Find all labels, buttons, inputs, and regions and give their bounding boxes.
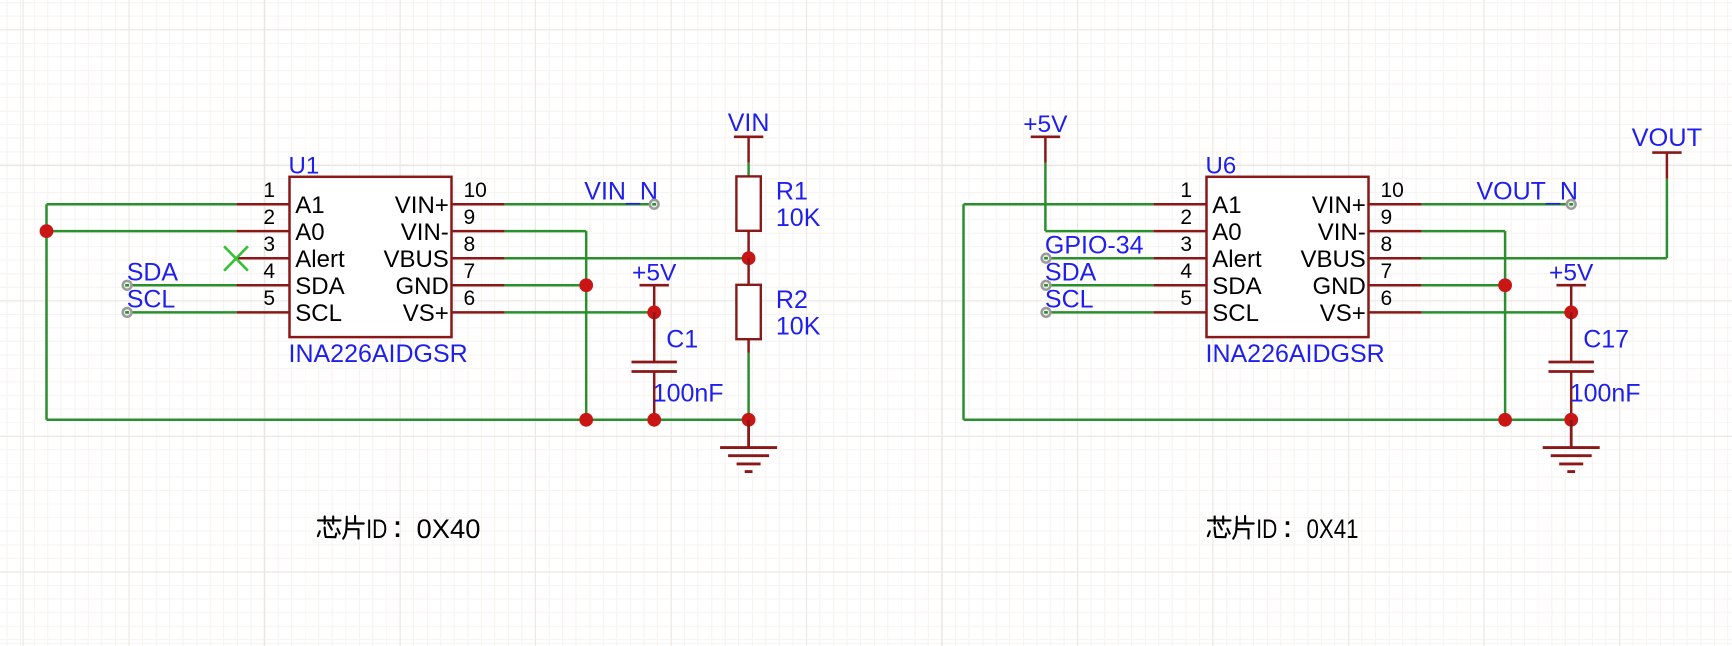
IC U6 pin 10 stub: [1369, 203, 1422, 206]
pin circle SCL (U6): [1042, 308, 1051, 317]
ground GND1 stem: [747, 420, 750, 448]
power flag +5V (C1) stem: [653, 285, 656, 311]
svg-text:5: 5: [263, 287, 275, 310]
svg-text:GND: GND: [1312, 273, 1365, 300]
wire pin6 VS+ to +5V node (U6): [1422, 311, 1572, 314]
svg-text:C17: C17: [1583, 325, 1629, 353]
svg-text:+5V: +5V: [632, 259, 677, 286]
power flag VOUT stem: [1666, 153, 1669, 179]
caption chip id 0X41 fullwidth colon: [1286, 521, 1289, 537]
svg-text:A0: A0: [1212, 219, 1241, 246]
wire pin2 A0 horizontal: [47, 230, 237, 233]
wire VOUT stem down to VBUS row: [1666, 179, 1669, 259]
svg-text:VS+: VS+: [1320, 300, 1366, 327]
wire pin9 VIN- vertical down: [585, 231, 588, 420]
power flag VIN stem: [747, 137, 750, 163]
svg-text:100nF: 100nF: [1570, 380, 1641, 408]
svg-text:VIN: VIN: [728, 109, 770, 137]
wire A0 row to pin2: [1045, 230, 1153, 233]
junction bottom/R2/ground: [742, 413, 756, 427]
svg-text:+5V: +5V: [1549, 259, 1594, 286]
svg-text:U6: U6: [1206, 153, 1237, 180]
IC U1 pin 10 stub: [452, 203, 505, 206]
svg-text:GPIO-34: GPIO-34: [1045, 232, 1144, 260]
svg-text:10: 10: [1381, 179, 1404, 202]
IC U6 pin 3 stub: [1153, 257, 1206, 260]
IC U6 pin 6 stub: [1369, 311, 1422, 314]
junction bottom/C1: [647, 413, 661, 427]
svg-text:+5V: +5V: [1023, 111, 1068, 138]
junction bottom/VIN- (U6): [1498, 413, 1512, 427]
svg-text:9: 9: [464, 206, 476, 229]
ground GND17 bar 1: [1543, 446, 1600, 449]
svg-text:GND: GND: [395, 273, 448, 300]
resistor R1 body: [736, 176, 760, 230]
svg-text:6: 6: [1381, 287, 1393, 310]
IC U1 pin 2 stub: [236, 230, 289, 233]
svg-text:VIN+: VIN+: [1312, 192, 1366, 219]
svg-text:VIN-: VIN-: [1318, 219, 1366, 246]
pin circle SDA (U6): [1042, 281, 1051, 290]
ground GND1 bar 1: [720, 446, 777, 449]
svg-text:3: 3: [263, 233, 275, 256]
IC U1 pin 1 stub: [236, 203, 289, 206]
svg-text:A0: A0: [295, 219, 324, 246]
junction GND/VIN- node (U6): [1498, 278, 1512, 292]
IC U6 pin 8 stub: [1369, 257, 1422, 260]
svg-text:8: 8: [464, 233, 476, 256]
svg-text:VOUT: VOUT: [1632, 124, 1703, 152]
wire VIN stem to R1: [747, 163, 750, 177]
wire GPIO-34 to pin 3: [1046, 257, 1153, 260]
svg-text:SCL: SCL: [295, 300, 342, 327]
svg-text:VIN-: VIN-: [401, 219, 449, 246]
svg-text:VOUT_N: VOUT_N: [1477, 178, 1578, 206]
svg-text:R1: R1: [776, 177, 808, 205]
wire pin7 GND to node: [505, 284, 587, 287]
capacitor C17 bottom plate: [1549, 370, 1594, 373]
pin circle SDA (U1): [123, 281, 132, 290]
wire pin1 A1 vertical down (U6): [962, 204, 965, 419]
capacitor C17 bottom lead: [1570, 372, 1573, 420]
svg-text:C1: C1: [666, 325, 698, 353]
pin circle VOUT_N: [1567, 200, 1576, 209]
caption chip id 0X41 glyph xin: [1208, 516, 1231, 537]
IC U6 pin 4 stub: [1153, 284, 1206, 287]
junction VS+/+5V node (U6): [1564, 306, 1578, 320]
IC U1 body: [290, 177, 452, 337]
svg-text:1: 1: [263, 179, 275, 202]
pin circle VIN_N: [650, 200, 659, 209]
ground GND1 bar 3: [737, 462, 761, 465]
wire pin1 A1 vertical down: [45, 204, 48, 419]
svg-text:VIN_N: VIN_N: [584, 178, 658, 206]
svg-text:100nF: 100nF: [653, 380, 724, 408]
svg-text:SCL: SCL: [1212, 300, 1259, 327]
no-connect cross on pin 3 Alert: [224, 246, 248, 270]
wire pin10 VIN+ to VIN_N: [505, 203, 655, 206]
svg-text:7: 7: [1381, 260, 1393, 283]
svg-text:SDA: SDA: [127, 259, 179, 287]
wire bottom bus (U1): [47, 419, 749, 422]
wire SDA to pin 4: [127, 284, 236, 287]
svg-text:4: 4: [1180, 260, 1192, 283]
ground GND1 bar 2: [728, 454, 769, 457]
wire pin1 A1 horizontal: [47, 203, 237, 206]
capacitor C1 bottom plate: [632, 370, 677, 373]
power flag +5V (C17) bar: [1557, 284, 1586, 287]
svg-text:ID: ID: [1256, 514, 1277, 544]
pin circle GPIO-34: [1042, 254, 1051, 263]
svg-text:INA226AIDGSR: INA226AIDGSR: [289, 340, 468, 368]
wire pin9 VIN- horizontal: [505, 230, 587, 233]
svg-text:A1: A1: [295, 192, 324, 219]
svg-text:SCL: SCL: [127, 286, 176, 314]
wire pin10 VIN+ to VOUT_N: [1422, 203, 1572, 206]
IC U1 pin 5 stub: [236, 311, 289, 314]
IC U6 pin 2 stub: [1153, 230, 1206, 233]
wire SDA to pin 4 (U6): [1046, 284, 1153, 287]
svg-text:VBUS: VBUS: [1300, 246, 1365, 273]
capacitor C1 upper lead from junction: [653, 312, 656, 338]
svg-text:9: 9: [1381, 206, 1393, 229]
ground GND17 bar 4: [1567, 470, 1575, 473]
resistor R2 top lead: [747, 258, 750, 285]
ground GND17 stem: [1570, 420, 1573, 448]
capacitor C17 top plate: [1549, 361, 1594, 364]
resistor R1 bottom lead: [747, 231, 750, 258]
resistor R2 body: [736, 285, 760, 339]
svg-text:10K: 10K: [776, 204, 821, 232]
svg-text:0X40: 0X40: [417, 514, 481, 544]
caption chip id 0X40 glyph xin: [318, 516, 341, 537]
wire pin6 VS+ to +5V node: [505, 311, 655, 314]
svg-text:6: 6: [464, 287, 476, 310]
capacitor C17 top lead: [1570, 312, 1573, 362]
caption chip id 0X40 fullwidth colon: [396, 521, 399, 537]
wire pin1 A1 horizontal (U6): [964, 203, 1154, 206]
svg-text:7: 7: [464, 260, 476, 283]
wire pin9 VIN- horizontal (U6): [1422, 230, 1505, 233]
IC U1 pin 6 stub: [452, 311, 505, 314]
svg-text:0X41: 0X41: [1307, 514, 1359, 544]
junction R1/R2/VBUS node: [742, 251, 756, 265]
wire SCL to pin 5: [127, 311, 236, 314]
wire pin8 VBUS to VOUT stem: [1422, 257, 1667, 260]
IC U1 pin 7 stub: [452, 284, 505, 287]
IC U1 pin 8 stub: [452, 257, 505, 260]
svg-text:4: 4: [263, 260, 275, 283]
wire SCL to pin 5 (U6): [1046, 311, 1153, 314]
wire pin8 VBUS to R1/R2 node: [505, 257, 749, 260]
IC U6 pin 1 stub: [1153, 203, 1206, 206]
ground GND1 bar 4: [745, 470, 753, 473]
svg-text:INA226AIDGSR: INA226AIDGSR: [1206, 340, 1385, 368]
IC U6 body: [1207, 177, 1369, 337]
svg-text:Alert: Alert: [295, 246, 345, 273]
caption chip id 0X41 glyph pian: [1233, 516, 1254, 539]
IC U6 pin 7 stub: [1369, 284, 1422, 287]
svg-text:1: 1: [1180, 179, 1192, 202]
svg-text:VBUS: VBUS: [383, 246, 448, 273]
svg-text:10K: 10K: [776, 312, 821, 340]
junction VS+/+5V node: [647, 306, 661, 320]
svg-text:A1: A1: [1212, 192, 1241, 219]
pin circle SCL (U1): [123, 308, 132, 317]
svg-text:SDA: SDA: [295, 273, 344, 300]
capacitor C1 top plate: [632, 361, 677, 364]
power flag +5V (C1) bar: [640, 284, 669, 287]
power flag +5V (U6 A0) bar: [1031, 136, 1060, 139]
wire pin9 VIN- vertical down (U6): [1504, 231, 1507, 420]
IC U6 pin 9 stub: [1369, 230, 1422, 233]
power flag +5V (U6 A0) stem: [1044, 137, 1047, 163]
svg-text:U1: U1: [289, 153, 320, 180]
svg-text:Alert: Alert: [1212, 246, 1262, 273]
junction A0/A1 tie: [40, 224, 54, 238]
svg-text:R2: R2: [776, 286, 808, 314]
svg-text:2: 2: [1180, 206, 1192, 229]
junction bottom/C17/ground: [1564, 413, 1578, 427]
ground GND17 bar 2: [1551, 454, 1592, 457]
IC U1 pin 9 stub: [452, 230, 505, 233]
capacitor C1 bottom lead: [653, 372, 656, 420]
svg-text:3: 3: [1180, 233, 1192, 256]
wire bottom bus (U6): [964, 419, 1572, 422]
svg-text:VIN+: VIN+: [395, 192, 449, 219]
power flag +5V (C17) stem: [1570, 285, 1573, 311]
svg-text:SDA: SDA: [1212, 273, 1261, 300]
ground GND17 bar 3: [1559, 462, 1583, 465]
caption chip id 0X40 glyph pian: [343, 516, 364, 539]
IC U1 pin 3 stub: [236, 257, 289, 260]
capacitor C1 top lead: [653, 312, 656, 362]
power flag VOUT bar: [1652, 151, 1681, 154]
svg-text:SDA: SDA: [1045, 259, 1097, 287]
wire pin7 GND to node (U6): [1422, 284, 1505, 287]
junction GND/VIN- node: [579, 278, 593, 292]
svg-text:ID: ID: [366, 514, 387, 544]
svg-text:SCL: SCL: [1045, 286, 1094, 314]
svg-text:VS+: VS+: [403, 300, 449, 327]
svg-text:5: 5: [1180, 287, 1192, 310]
svg-text:2: 2: [263, 206, 275, 229]
wire R2 to bottom bus: [747, 353, 750, 420]
power flag VIN bar: [734, 136, 763, 139]
svg-text:10: 10: [464, 179, 487, 202]
svg-text:8: 8: [1381, 233, 1393, 256]
resistor R2 bottom lead: [747, 339, 750, 353]
junction bottom/VIN-: [579, 413, 593, 427]
IC U1 pin 4 stub: [236, 284, 289, 287]
wire +5V down to A0 row: [1044, 163, 1047, 231]
IC U6 pin 5 stub: [1153, 311, 1206, 314]
